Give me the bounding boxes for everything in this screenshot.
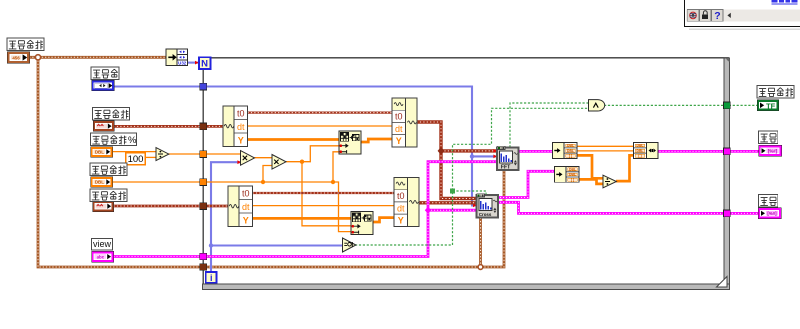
svg-text:dt: dt xyxy=(242,202,250,212)
tunnel: analysis points xyxy=(200,179,207,186)
wire: waveform1 branch into FFT xyxy=(441,149,497,152)
svg-text:DBL: DBL xyxy=(569,168,576,172)
wire: i terminal up to multiply xyxy=(211,162,241,271)
tunnel: amplitude out xyxy=(724,148,731,155)
get waveform components G2 (input) xyxy=(228,186,253,227)
svg-text:456: 456 xyxy=(12,55,20,60)
svg-text:DBL: DBL xyxy=(569,173,576,177)
svg-text:abc: abc xyxy=(97,254,105,259)
wire: FFT magnitude out to unbundle xyxy=(518,150,554,153)
coercion arrows into FFT/Cross window inputs xyxy=(493,155,497,159)
svg-text:[ ]: [ ] xyxy=(571,178,574,182)
junction: boolean wire xyxy=(450,189,455,194)
wire: t0 in to build2 xyxy=(253,192,395,194)
control: view (cluster) xyxy=(92,251,114,262)
tunnel: view xyxy=(200,253,207,260)
junction: waveform1 xyxy=(438,147,445,155)
tunnel: phase out xyxy=(724,210,731,217)
svg-text:dt: dt xyxy=(397,203,405,213)
label: averaging done xyxy=(757,86,794,99)
equal to zero Q1 xyxy=(343,238,356,252)
tunnel: window function xyxy=(200,83,207,90)
wire: multiply1 to multiply2 xyxy=(255,157,273,159)
numeric constant 100 xyxy=(126,153,145,165)
svg-text:TF: TF xyxy=(766,101,776,110)
wire: Y ref to subset1 xyxy=(248,138,341,141)
svg-text:DBL: DBL xyxy=(567,144,574,148)
control: spectrum overlap percent xyxy=(91,147,113,157)
multiply M2 xyxy=(272,155,286,170)
wire: and gate out to done indicator xyxy=(604,104,757,106)
control: reference waveform xyxy=(93,121,114,132)
label: view xyxy=(92,239,113,251)
wire: Y in to subset2 xyxy=(253,217,353,220)
svg-text:t0: t0 xyxy=(237,109,245,119)
svg-text:i: i xyxy=(210,273,213,283)
label: average parameters xyxy=(7,38,44,51)
tunnel: averaging done out xyxy=(724,102,731,109)
wire: window function blue net xyxy=(114,87,477,206)
svg-text:dt: dt xyxy=(395,124,403,134)
context help window fragment xyxy=(685,0,800,30)
junction: offset wire xyxy=(300,160,304,164)
svg-text:Y: Y xyxy=(396,136,402,146)
indicator: phase xyxy=(758,208,781,219)
svg-text:view: view xyxy=(93,239,112,249)
svg-text:t0: t0 xyxy=(395,112,403,122)
wire: avg params branch up to Cross VI xyxy=(479,218,482,268)
tunnel: overlap xyxy=(200,151,207,158)
wire: input waveform into components xyxy=(114,205,230,208)
wire: view branch to Cross xyxy=(428,209,477,212)
svg-text:DBL: DBL xyxy=(95,180,104,185)
wire: Cross out to unbundle2 xyxy=(497,171,555,197)
bundle spectrum B3 xyxy=(634,143,659,159)
svg-text:?: ? xyxy=(714,10,720,22)
wire: view cluster to FFT xyxy=(114,162,498,257)
control: input waveform xyxy=(93,201,114,212)
tunnel: average parameters xyxy=(200,264,207,271)
unbundle spectrum U3 (cross result) xyxy=(555,167,580,183)
label: analysis points xyxy=(90,163,127,176)
svg-text:Cross: Cross xyxy=(479,212,492,217)
for loop iteration terminal i xyxy=(206,272,217,283)
wire: i branch to equal-zero xyxy=(211,244,343,246)
wire: divide out to multiply1 xyxy=(169,153,241,155)
control: average parameters (cluster) xyxy=(7,52,30,63)
wire: avg params control to unbundle xyxy=(29,56,166,59)
svg-text:U32: U32 xyxy=(178,61,187,66)
and gate xyxy=(589,100,605,111)
wire: dt ref to build xyxy=(248,125,393,127)
control: window function (ring) xyxy=(92,80,115,91)
svg-text:Y: Y xyxy=(243,216,249,226)
array subset A2 xyxy=(351,212,373,235)
get waveform components G1 (reference) xyxy=(223,106,248,147)
wire: avg params down, along bottom, up to FFT VI xyxy=(38,57,504,267)
wire: dt in to build2 xyxy=(253,205,395,207)
wire: 100 const to divide xyxy=(145,156,156,158)
wire: cross magnitude to divide xyxy=(578,179,603,184)
hyperlink fragment xyxy=(772,0,798,4)
wire: Cross out to phase indicator xyxy=(497,202,758,213)
wire: offset to subset2 index xyxy=(302,162,352,226)
build waveform B1 xyxy=(392,98,417,147)
svg-text:DBL: DBL xyxy=(637,144,644,148)
wire: waveform1 to FFT and Cross A xyxy=(417,122,477,199)
wire: f0 passthrough xyxy=(577,145,635,147)
svg-text:[ ]: [ ] xyxy=(569,154,572,158)
svg-text:Y: Y xyxy=(238,136,244,146)
wire: points branch to subset1 length xyxy=(333,152,340,182)
junction: view wire xyxy=(425,207,431,214)
unbundle spectrum U2 (FFT result) xyxy=(553,143,578,159)
wire: points branch to multiply2 xyxy=(263,166,272,183)
wire: overlap control to divide xyxy=(113,151,157,153)
wire: offset to subset1 index xyxy=(286,146,340,162)
array subset A1 xyxy=(339,131,361,154)
indicator: amplitude xyxy=(759,145,782,156)
svg-text:t0: t0 xyxy=(242,189,250,199)
label: reference waveform xyxy=(93,108,130,121)
svg-text:%: % xyxy=(128,135,137,146)
loop resize handle xyxy=(717,277,728,288)
help toolbar button: help ? xyxy=(712,10,724,23)
wire: divide out to bundle xyxy=(616,155,634,181)
multiply M1 xyxy=(241,151,255,166)
svg-text:DBL: DBL xyxy=(567,149,574,153)
control: analysis points xyxy=(91,177,113,187)
wire: df passthrough xyxy=(577,150,635,152)
help toolbar button: simple/complex diagram xyxy=(687,10,699,22)
label: input waveform xyxy=(90,189,127,202)
unbundle function U1 (average parameters) xyxy=(166,49,188,66)
wire: analysis points net xyxy=(113,182,353,232)
divide by 100 D1 xyxy=(156,148,169,161)
junction: points wire xyxy=(261,180,265,184)
svg-text:t0: t0 xyxy=(397,191,405,201)
tunnel: reference waveform xyxy=(200,123,207,130)
svg-text:[%#]: [%#] xyxy=(768,149,778,154)
wire: count to N terminal xyxy=(188,62,199,64)
svg-text:[ ]: [ ] xyxy=(638,154,641,158)
wire: boolean branch to Cross restart xyxy=(453,191,487,195)
junction: avg params branch ring xyxy=(35,55,40,60)
label: amplitude xyxy=(759,131,778,144)
svg-text:[%#]: [%#] xyxy=(767,211,777,216)
label: window function xyxy=(91,67,119,80)
tunnel: input waveform xyxy=(200,203,207,210)
wire: t0 ref to build xyxy=(248,111,393,113)
coercion arrow at N xyxy=(195,61,199,65)
wire: bundle out to amplitude indicator xyxy=(657,150,759,153)
junction: blue window xyxy=(470,154,474,158)
for loop frame xyxy=(203,58,730,290)
wire: waveform2 to Cross B xyxy=(419,201,477,204)
svg-text:dt: dt xyxy=(237,122,245,132)
divide D2 xyxy=(603,175,616,188)
label: phase xyxy=(759,195,778,208)
build waveform B2 xyxy=(394,178,419,227)
help toolbar button: lock xyxy=(699,10,711,22)
svg-text:100: 100 xyxy=(128,154,144,165)
help pane collapse arrow xyxy=(727,13,730,18)
svg-text:Y: Y xyxy=(398,216,404,226)
wire: subset2 out to build2 Y xyxy=(373,218,395,222)
svg-text:DBL: DBL xyxy=(95,150,104,155)
Cross spectrum VI xyxy=(477,194,499,218)
wire: magnitude array to divide xyxy=(577,155,604,178)
svg-text:DBL: DBL xyxy=(637,149,644,153)
wire: FFT averaging done to and gate xyxy=(510,103,589,148)
coercion dot at multiply input xyxy=(237,160,241,164)
label: spectrum overlap percent xyxy=(91,133,138,146)
svg-text:FFT: FFT xyxy=(501,165,511,171)
for loop count terminal N xyxy=(199,57,211,69)
wire: reference waveform into components xyxy=(114,125,225,128)
wire: subset1 out to build1 Y xyxy=(361,139,393,142)
wire: window branch into FFT xyxy=(472,155,497,157)
indicator: averaging done (TF) xyxy=(757,100,779,111)
junction: i wire xyxy=(209,243,213,247)
svg-text:N: N xyxy=(201,58,208,69)
wire: first-call boolean to and gate xyxy=(355,108,589,245)
FFT spectrum VI (reference) xyxy=(497,146,519,170)
